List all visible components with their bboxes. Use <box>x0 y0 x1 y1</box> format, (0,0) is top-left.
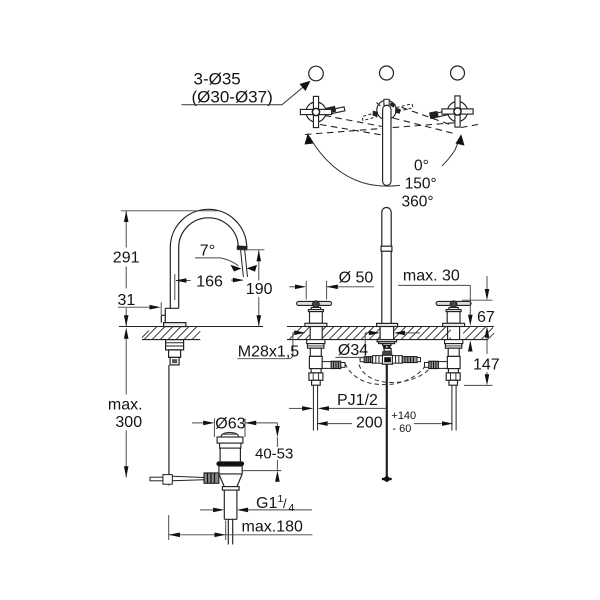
svg-text:4: 4 <box>289 502 295 514</box>
svg-text:PJ1/2: PJ1/2 <box>337 392 378 409</box>
svg-text:7°: 7° <box>200 243 215 260</box>
svg-text:40-53: 40-53 <box>255 445 293 462</box>
svg-text:Ø63: Ø63 <box>215 416 245 433</box>
svg-text:147: 147 <box>473 357 500 374</box>
svg-text:Ø 50: Ø 50 <box>339 269 374 286</box>
svg-text:Ø34: Ø34 <box>338 342 368 359</box>
svg-text:max.: max. <box>108 397 143 414</box>
svg-text:360°: 360° <box>402 193 434 210</box>
svg-text:200: 200 <box>356 414 383 431</box>
svg-text:31: 31 <box>118 292 136 309</box>
svg-text:3-Ø35: 3-Ø35 <box>194 70 241 89</box>
svg-text:(Ø30-Ø37): (Ø30-Ø37) <box>192 88 273 107</box>
svg-text:67: 67 <box>477 309 495 326</box>
svg-text:300: 300 <box>115 414 142 431</box>
svg-text:G1: G1 <box>256 495 277 512</box>
svg-text:- 60: - 60 <box>392 423 411 435</box>
svg-text:+140: +140 <box>391 410 416 422</box>
svg-text:150°: 150° <box>405 176 437 193</box>
svg-text:max.180: max.180 <box>242 519 303 536</box>
svg-text:0°: 0° <box>414 158 429 175</box>
svg-text:/: / <box>283 496 287 511</box>
svg-text:M28x1,5: M28x1,5 <box>238 344 299 361</box>
svg-text:166: 166 <box>196 273 223 290</box>
svg-text:190: 190 <box>246 281 273 298</box>
svg-text:max. 30: max. 30 <box>403 267 460 284</box>
svg-text:291: 291 <box>113 250 140 267</box>
